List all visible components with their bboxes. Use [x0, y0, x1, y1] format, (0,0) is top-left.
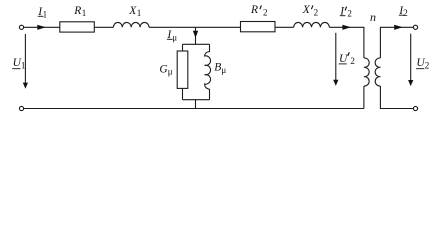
- svg-text:μ: μ: [172, 32, 177, 42]
- arrowhead Imu: [193, 31, 198, 38]
- resistor Gmu: [177, 51, 188, 88]
- arrowhead I'2: [342, 25, 351, 30]
- arrow U'2: [335, 33, 337, 81]
- arrow U2: [410, 34, 412, 81]
- svg-text:R: R: [250, 4, 258, 16]
- svg-text:μ: μ: [221, 65, 226, 75]
- resistor R1: [60, 22, 95, 32]
- arrowhead U1: [23, 83, 28, 89]
- svg-text:B: B: [214, 62, 221, 74]
- wire X1 to R'2 with node: [149, 26, 241, 28]
- svg-text:2: 2: [425, 61, 430, 71]
- arrow U1: [24, 34, 26, 84]
- svg-text:U: U: [339, 53, 348, 65]
- svg-text:1: 1: [82, 8, 87, 18]
- wire R'2 to X'2: [275, 26, 294, 28]
- svg-text:n: n: [370, 10, 376, 24]
- terminal top-left: [19, 25, 23, 29]
- inductor X'2: [294, 22, 330, 27]
- svg-text:2: 2: [263, 8, 268, 18]
- wire Gmu top lead: [182, 44, 184, 51]
- transformer primary winding: [364, 58, 369, 86]
- wire secondary bottom lead: [380, 86, 413, 109]
- svg-text:R: R: [73, 5, 81, 17]
- arrowhead I2: [394, 25, 403, 30]
- bottom wire left: [24, 108, 364, 110]
- wire X'2 to transformer corner: [329, 27, 364, 58]
- terminal bottom-right: [413, 106, 417, 110]
- wire secondary top lead: [380, 27, 413, 58]
- resistor R'2: [241, 22, 276, 32]
- terminal bottom-left: [19, 106, 23, 110]
- arrowhead U2: [408, 80, 413, 86]
- wire top-left segment: [24, 26, 60, 28]
- inductor X1: [113, 22, 149, 27]
- svg-text:X: X: [302, 4, 311, 16]
- inductor Bmu: [205, 44, 211, 99]
- svg-text:μ: μ: [168, 67, 173, 77]
- svg-text:2: 2: [350, 56, 355, 66]
- transformer secondary winding: [375, 58, 380, 86]
- svg-text:2: 2: [347, 9, 352, 19]
- wire shunt split bar: [183, 43, 210, 45]
- svg-text:2: 2: [403, 8, 408, 18]
- terminal top-right: [413, 25, 417, 29]
- svg-text:2: 2: [314, 8, 319, 18]
- arrowhead U'2: [333, 80, 338, 86]
- svg-text:1: 1: [21, 61, 26, 71]
- wire primary bottom lead: [363, 86, 365, 109]
- svg-text:1: 1: [137, 8, 142, 18]
- wire shunt branch vertical top: [195, 27, 197, 44]
- wire Gmu bottom lead: [182, 88, 184, 99]
- wire shunt join bar: [183, 99, 210, 101]
- svg-text:1: 1: [43, 9, 48, 19]
- arrowhead I1: [37, 25, 46, 30]
- wire R1 to X1: [94, 26, 113, 28]
- wire shunt to bottom: [195, 100, 197, 109]
